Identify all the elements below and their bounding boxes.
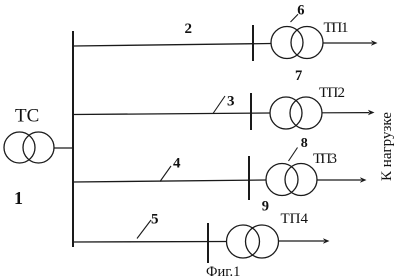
- svg-text:К нагрузке: К нагрузке: [379, 112, 395, 181]
- svg-text:ТП3: ТП3: [313, 151, 337, 167]
- svg-text:ТП2: ТП2: [319, 85, 345, 101]
- svg-text:Фиг.1: Фиг.1: [206, 264, 240, 279]
- svg-text:8: 8: [301, 136, 308, 151]
- svg-text:ТС: ТС: [15, 106, 39, 127]
- svg-text:2: 2: [185, 21, 193, 37]
- svg-text:1: 1: [14, 188, 23, 208]
- svg-text:7: 7: [295, 68, 302, 84]
- svg-text:ТП4: ТП4: [281, 211, 309, 227]
- svg-text:4: 4: [173, 156, 181, 172]
- svg-text:3: 3: [227, 93, 235, 109]
- svg-text:9: 9: [262, 199, 269, 215]
- svg-text:ТП1: ТП1: [324, 20, 349, 36]
- svg-text:6: 6: [297, 2, 304, 18]
- svg-text:5: 5: [151, 211, 159, 227]
